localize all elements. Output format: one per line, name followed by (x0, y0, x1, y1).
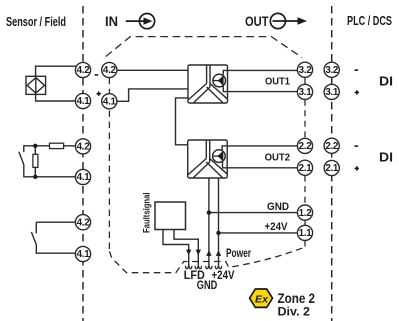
svg-text:DI: DI (379, 150, 393, 165)
wire K2 out to 2.2 (222, 146, 298, 151)
dash between inner 4.2/4.1 (108, 78, 110, 94)
svg-text:DI: DI (379, 74, 393, 89)
svg-text:1.2: 1.2 (299, 208, 313, 219)
svg-text:Zone 2: Zone 2 (278, 291, 316, 306)
svg-text:4.2: 4.2 (77, 142, 91, 153)
svg-text:3.1: 3.1 (299, 87, 313, 98)
terminal labels (77, 65, 339, 260)
device boundary top (dashed trapezoid) (106, 37, 302, 58)
svg-text:1.1: 1.1 (299, 228, 313, 239)
junction S1 bottom (33, 175, 37, 179)
arrow down LFD A (186, 250, 191, 256)
resistor R2 vertical (33, 154, 38, 167)
plug fork LFD A (186, 266, 192, 269)
terminal circles left inner column (102, 62, 117, 109)
wire power B from K2 (218, 178, 220, 266)
IN symbol (105, 13, 155, 29)
wire power A from K2 (208, 178, 210, 266)
wire K1 tap to K2 (176, 98, 189, 145)
svg-text:4.2: 4.2 (103, 65, 117, 76)
svg-text:3.2: 3.2 (299, 65, 313, 76)
svg-text:2.2: 2.2 (325, 141, 339, 152)
terminal column dashes right col A (304, 78, 306, 248)
wire fault B (174, 230, 198, 267)
svg-text:2.1: 2.1 (299, 163, 313, 174)
wire 4.2 to isolator K1 (117, 69, 188, 71)
svg-text:Sensor / Field: Sensor / Field (6, 14, 66, 29)
faultsignal box (155, 202, 186, 230)
plug fork power A (206, 266, 212, 269)
arrow up power B (216, 250, 221, 256)
proximity sensor B1 (26, 76, 46, 94)
terminal circles right col B (324, 62, 339, 175)
plug fork LFD B (195, 266, 201, 269)
amplifier circle K1 (213, 74, 226, 87)
terminal circles left outer column (75, 62, 90, 261)
svg-text:PLC / DCS: PLC / DCS (347, 14, 392, 28)
wire sensor bottom (36, 94, 76, 101)
svg-text:2.2: 2.2 (299, 141, 313, 152)
svg-text:GND: GND (197, 280, 218, 292)
isolator K1 (188, 65, 228, 103)
junction GND (207, 210, 211, 214)
svg-text:4.1: 4.1 (77, 249, 91, 260)
zone separator line Sensor/Field (82, 6, 84, 321)
junction S1 top (33, 144, 37, 148)
svg-text:4.2: 4.2 (77, 65, 91, 76)
OUT symbol (245, 13, 307, 29)
wire K1 out to 3.1 (223, 86, 297, 92)
polarity marks right row 2 (355, 145, 360, 170)
svg-text:3.2: 3.2 (325, 65, 339, 76)
svg-text:2.1: 2.1 (325, 163, 339, 174)
wire K2 out to 2.1 (223, 162, 298, 168)
amplifier circle K2 (213, 150, 226, 163)
polarity marks right row 1 (355, 69, 360, 94)
wire GND rail to 1.2 (209, 212, 298, 214)
svg-text:4.2: 4.2 (77, 217, 91, 228)
device boundary bottom path (109, 248, 303, 273)
Ex hexagon logo (250, 289, 273, 307)
terminal circles right col A (297, 62, 312, 240)
device boundary left edge (108, 111, 110, 252)
resistor R1 horizontal (50, 143, 64, 148)
svg-text:OUT1: OUT1 (265, 76, 290, 88)
svg-text:OUT: OUT (245, 13, 269, 29)
junction +24V (216, 231, 220, 235)
plug fork power B (215, 266, 221, 269)
arrow up power A (206, 250, 211, 256)
arrow down LFD B (196, 250, 201, 256)
svg-text:Faultsignal: Faultsignal (142, 193, 153, 234)
wire 4.1 to isolator K1 (117, 89, 188, 101)
svg-text:GND: GND (267, 201, 289, 213)
switch contact S2 (31, 222, 75, 253)
svg-text:4.1: 4.1 (77, 96, 91, 107)
switch contact S1 with resistors (19, 146, 76, 177)
zone separator line PLC/DCS (331, 6, 333, 321)
svg-text:4.1: 4.1 (103, 97, 117, 108)
svg-text:4.1: 4.1 (77, 172, 91, 183)
svg-text:OUT2: OUT2 (265, 151, 291, 163)
svg-text:Power: Power (226, 248, 251, 260)
svg-text:Div. 2: Div. 2 (278, 307, 311, 319)
svg-text:IN: IN (105, 13, 118, 29)
svg-text:3.1: 3.1 (325, 87, 339, 98)
svg-text:+24V: +24V (265, 221, 289, 233)
polarity marks left (95, 74, 101, 96)
wire sensor top (36, 66, 77, 76)
isolator K2 (188, 140, 228, 178)
wire +24V rail to 1.1 (219, 232, 298, 234)
svg-text:Ex: Ex (255, 294, 269, 306)
wire K1 out to 3.2 (223, 70, 297, 74)
wire fault A (163, 230, 189, 267)
